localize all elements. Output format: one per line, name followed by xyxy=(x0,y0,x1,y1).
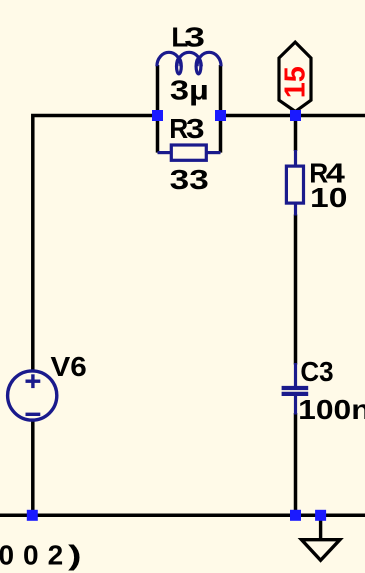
node 15 junction xyxy=(290,110,301,121)
wire xyxy=(156,116,160,153)
wire xyxy=(219,65,223,116)
wire xyxy=(0,514,365,518)
wire xyxy=(294,116,298,152)
net flag 15 xyxy=(279,42,312,111)
svg-text:3µ: 3µ xyxy=(170,74,209,105)
resistor R4 xyxy=(286,150,303,216)
wire xyxy=(221,114,365,118)
svg-text:3: 3 xyxy=(184,22,205,53)
wire xyxy=(31,420,35,516)
node A junction xyxy=(152,110,163,121)
node gnd-mid junction xyxy=(290,510,301,521)
svg-text:0 0 2: 0 0 2 xyxy=(0,539,63,570)
node gnd-left junction xyxy=(27,510,38,521)
svg-text:10: 10 xyxy=(310,182,347,213)
svg-text:V6: V6 xyxy=(51,351,87,382)
wire xyxy=(294,413,298,515)
voltage source V6 xyxy=(8,371,57,420)
ground xyxy=(302,515,340,560)
svg-text:): ) xyxy=(68,539,81,570)
wire xyxy=(219,116,223,153)
wire xyxy=(294,215,298,365)
svg-text:100n: 100n xyxy=(298,394,365,425)
wire xyxy=(156,65,160,116)
inductor L3 xyxy=(157,52,221,74)
svg-text:C3: C3 xyxy=(300,356,333,387)
resistor R3 xyxy=(158,145,221,160)
capacitor C3 xyxy=(282,363,309,415)
node gnd-right junction xyxy=(315,510,326,521)
svg-text:15: 15 xyxy=(280,66,312,98)
wire xyxy=(33,116,158,372)
node B junction xyxy=(215,110,226,121)
svg-text:3: 3 xyxy=(186,113,205,144)
svg-text:33: 33 xyxy=(170,164,209,195)
